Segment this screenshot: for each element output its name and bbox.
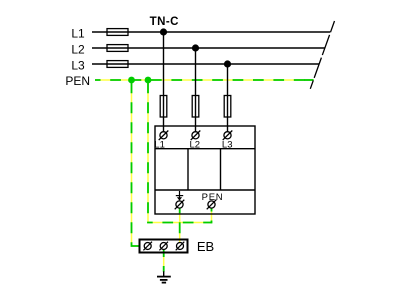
svg-text:PEN: PEN [202,192,224,203]
svg-text:L2: L2 [71,43,85,57]
svg-text:TN-C: TN-C [150,16,179,28]
svg-text:L1: L1 [71,27,85,41]
svg-text:L1: L1 [154,139,165,150]
svg-text:PEN: PEN [65,74,90,88]
svg-text:L2: L2 [190,139,201,150]
svg-text:EB: EB [197,239,214,254]
svg-text:L3: L3 [222,139,233,150]
svg-text:L3: L3 [71,59,85,73]
